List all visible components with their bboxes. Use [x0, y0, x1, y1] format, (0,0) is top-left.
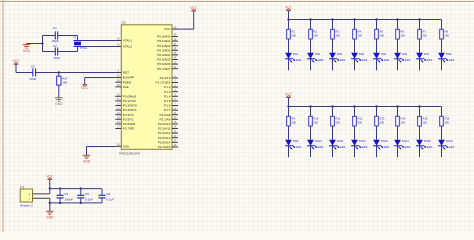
svg-text:200: 200	[401, 33, 406, 37]
svg-text:P3.2/INT0: P3.2/INT0	[123, 104, 137, 108]
svg-text:LED0: LED0	[404, 145, 411, 149]
svg-text:200: 200	[423, 120, 428, 124]
svg-text:Y1: Y1	[73, 36, 77, 40]
svg-text:U1: U1	[122, 20, 126, 24]
svg-text:P89C51RD2FN: P89C51RD2FN	[119, 151, 140, 155]
svg-text:DS2: DS2	[315, 52, 321, 56]
svg-text:R15: R15	[423, 117, 428, 121]
svg-text:200: 200	[292, 33, 297, 37]
svg-text:P3.7/RD: P3.7/RD	[123, 127, 135, 131]
svg-text:PSEN: PSEN	[123, 80, 131, 84]
svg-text:GND: GND	[46, 216, 54, 220]
svg-text:DS5: DS5	[381, 52, 387, 56]
svg-text:200: 200	[292, 120, 297, 124]
svg-text:LED0: LED0	[361, 58, 368, 62]
svg-text:R10: R10	[314, 117, 319, 121]
svg-text:R13: R13	[380, 117, 385, 121]
svg-text:P2.3/A11: P2.3/A11	[158, 127, 171, 131]
svg-text:10K: 10K	[62, 81, 67, 85]
svg-text:XTAL1: XTAL1	[123, 39, 133, 43]
svg-text:200: 200	[358, 33, 363, 37]
svg-text:LED0: LED0	[317, 58, 324, 62]
svg-text:LED0: LED0	[383, 58, 390, 62]
svg-text:10uF: 10uF	[30, 77, 37, 81]
svg-text:LED0: LED0	[339, 58, 346, 62]
svg-text:200: 200	[380, 33, 385, 37]
svg-text:DS8: DS8	[446, 52, 452, 56]
svg-text:LED0: LED0	[426, 58, 433, 62]
svg-text:P1.7: P1.7	[164, 108, 171, 112]
svg-text:P2.1/A9: P2.1/A9	[159, 117, 170, 121]
svg-text:VCC: VCC	[190, 6, 198, 10]
svg-text:P3.6/WR: P3.6/WR	[123, 122, 136, 126]
svg-text:P3.1/TxD: P3.1/TxD	[123, 99, 137, 103]
svg-text:200: 200	[401, 120, 406, 124]
svg-text:LED0: LED0	[339, 145, 346, 149]
svg-text:C2: C2	[53, 44, 57, 48]
svg-text:DS12: DS12	[359, 139, 366, 143]
svg-text:P0.4/AD4: P0.4/AD4	[157, 53, 171, 57]
svg-text:LED0: LED0	[361, 145, 368, 149]
svg-text:VSS: VSS	[123, 144, 129, 148]
svg-text:P0.5/AD5: P0.5/AD5	[157, 58, 171, 62]
svg-text:RST: RST	[123, 71, 129, 75]
svg-text:P1: P1	[20, 185, 24, 189]
svg-text:P1.3: P1.3	[164, 90, 171, 94]
svg-text:DS16: DS16	[446, 139, 453, 143]
svg-text:P1.1/T2EX: P1.1/T2EX	[156, 81, 171, 85]
svg-text:P3.0/RxD: P3.0/RxD	[123, 94, 137, 98]
svg-text:200: 200	[336, 120, 341, 124]
svg-text:DS15: DS15	[424, 139, 431, 143]
svg-text:DS6: DS6	[402, 52, 408, 56]
svg-text:VCC: VCC	[285, 92, 293, 96]
svg-text:LED0: LED0	[295, 145, 302, 149]
svg-text:200: 200	[380, 120, 385, 124]
svg-text:P0.1/AD1: P0.1/AD1	[157, 39, 171, 43]
svg-text:C3: C3	[31, 64, 35, 68]
svg-text:R14: R14	[401, 117, 406, 121]
svg-text:200: 200	[314, 120, 319, 124]
svg-text:GND: GND	[23, 49, 31, 53]
svg-text:200: 200	[445, 120, 450, 124]
svg-text:P0.6/AD6: P0.6/AD6	[157, 62, 171, 66]
svg-text:R2: R2	[314, 30, 318, 34]
svg-text:Header 2: Header 2	[20, 204, 33, 208]
svg-text:P0.7/AD7: P0.7/AD7	[157, 67, 171, 71]
svg-text:R6: R6	[401, 30, 405, 34]
svg-text:EA/VPP: EA/VPP	[123, 76, 134, 80]
svg-text:C5: C5	[85, 192, 89, 196]
svg-text:200: 200	[336, 33, 341, 37]
svg-text:DS14: DS14	[402, 139, 409, 143]
svg-text:R8: R8	[445, 30, 449, 34]
svg-text:P0.3/AD3: P0.3/AD3	[157, 48, 171, 52]
svg-text:200: 200	[445, 33, 450, 37]
svg-text:GND: GND	[55, 102, 63, 106]
svg-text:P3.3/INT1: P3.3/INT1	[123, 108, 137, 112]
svg-text:P0.2/AD2: P0.2/AD2	[157, 44, 171, 48]
svg-text:0.1uF: 0.1uF	[85, 198, 93, 202]
svg-text:P2.5/A13: P2.5/A13	[158, 136, 171, 140]
svg-text:LED0: LED0	[448, 58, 455, 62]
svg-text:LED0: LED0	[295, 58, 302, 62]
svg-text:P0.0/AD0: P0.0/AD0	[157, 35, 171, 39]
svg-text:XTAL2: XTAL2	[123, 45, 133, 49]
svg-text:XTAL: XTAL	[80, 46, 88, 50]
svg-text:LED0: LED0	[383, 145, 390, 149]
svg-text:C4: C4	[64, 192, 68, 196]
svg-text:DS3: DS3	[337, 52, 343, 56]
svg-text:DS11: DS11	[337, 139, 344, 143]
svg-text:VCC: VCC	[164, 27, 171, 31]
svg-text:200: 200	[314, 33, 319, 37]
svg-text:LED0: LED0	[426, 145, 433, 149]
svg-text:VCC: VCC	[285, 5, 293, 9]
svg-text:LED0: LED0	[317, 145, 324, 149]
svg-text:VCC: VCC	[13, 59, 21, 63]
svg-text:100uF: 100uF	[64, 198, 73, 202]
svg-text:P2.0/A8: P2.0/A8	[159, 113, 170, 117]
svg-text:P2.7/A15: P2.7/A15	[158, 145, 171, 149]
svg-text:R4: R4	[358, 30, 362, 34]
svg-text:R5: R5	[380, 30, 384, 34]
svg-text:VCC: VCC	[81, 86, 89, 90]
svg-text:30pF: 30pF	[54, 56, 61, 60]
svg-text:P2.6/A14: P2.6/A14	[158, 140, 171, 144]
svg-text:P1.5: P1.5	[164, 99, 171, 103]
svg-text:DS7: DS7	[424, 52, 430, 56]
svg-text:DS9: DS9	[293, 139, 299, 143]
svg-text:P1.0/T2: P1.0/T2	[160, 76, 171, 80]
svg-text:R12: R12	[358, 117, 363, 121]
svg-text:ALE: ALE	[123, 85, 129, 89]
svg-text:LED0: LED0	[448, 145, 455, 149]
svg-text:R9: R9	[292, 117, 296, 121]
svg-text:C1: C1	[53, 26, 57, 30]
svg-text:P1.6: P1.6	[164, 104, 171, 108]
svg-text:DS1: DS1	[293, 52, 299, 56]
svg-text:P3.4/T0: P3.4/T0	[123, 113, 134, 117]
svg-text:VCC: VCC	[46, 174, 54, 178]
svg-text:P3.5/T1: P3.5/T1	[123, 117, 134, 121]
svg-text:R1: R1	[292, 30, 296, 34]
svg-text:P2.4/A12: P2.4/A12	[158, 131, 171, 135]
svg-text:P1.4: P1.4	[164, 94, 171, 98]
svg-text:R16: R16	[445, 117, 450, 121]
svg-text:R3: R3	[336, 30, 340, 34]
svg-text:P2.2/A10: P2.2/A10	[158, 122, 171, 126]
svg-text:R7: R7	[423, 30, 427, 34]
svg-text:P1.2: P1.2	[164, 85, 171, 89]
svg-text:DS4: DS4	[359, 52, 365, 56]
svg-text:DS13: DS13	[381, 139, 388, 143]
svg-text:LED0: LED0	[404, 58, 411, 62]
svg-text:200: 200	[358, 120, 363, 124]
svg-text:0.1uF: 0.1uF	[106, 198, 114, 202]
svg-text:GND: GND	[83, 160, 91, 164]
svg-text:DS10: DS10	[315, 139, 322, 143]
svg-text:C6: C6	[106, 192, 110, 196]
svg-text:R11: R11	[336, 117, 341, 121]
svg-text:200: 200	[423, 33, 428, 37]
svg-text:30pF: 30pF	[52, 39, 59, 43]
